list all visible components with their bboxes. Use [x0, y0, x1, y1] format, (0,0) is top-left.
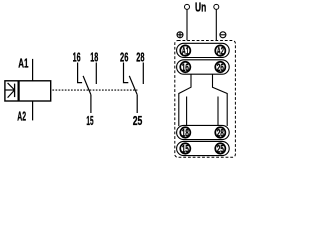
svg-text:Un: Un: [195, 0, 206, 15]
svg-text:A2: A2: [17, 110, 26, 124]
svg-text:A1: A1: [18, 57, 28, 71]
svg-text:18: 18: [90, 51, 98, 65]
svg-text:18: 18: [182, 128, 189, 140]
svg-text:16: 16: [182, 62, 189, 74]
svg-text:26: 26: [217, 62, 224, 74]
svg-text:15: 15: [86, 114, 93, 128]
svg-text:15: 15: [182, 144, 189, 156]
svg-text:25: 25: [217, 144, 224, 156]
svg-text:16: 16: [73, 51, 81, 65]
svg-text:A2: A2: [217, 45, 224, 57]
svg-text:26: 26: [120, 51, 128, 65]
svg-text:A1: A1: [182, 45, 189, 57]
svg-text:25: 25: [133, 114, 143, 128]
svg-text:28: 28: [217, 128, 224, 140]
svg-text:28: 28: [136, 51, 144, 65]
